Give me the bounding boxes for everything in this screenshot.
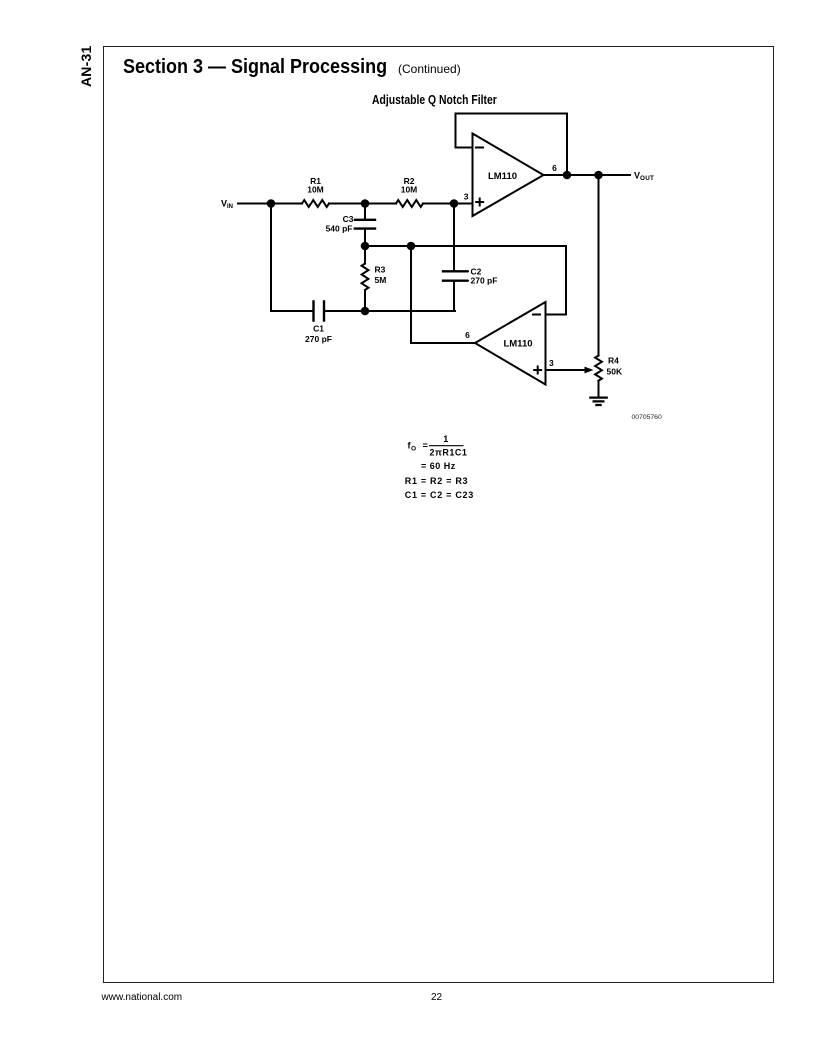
- wire R1 to node B: [329, 203, 396, 205]
- label VIN: [221, 199, 233, 211]
- svg-text:50K: 50K: [607, 367, 623, 377]
- formula R1=R2=R3: [405, 476, 468, 486]
- svg-text:540 pF: 540 pF: [326, 223, 353, 233]
- U1 minus input symbol: [475, 147, 484, 149]
- wire U2 noninverting input to R4 wiper: [546, 369, 588, 371]
- wire U1 output: [544, 174, 631, 176]
- pin 3 U2: [549, 358, 554, 368]
- formula block: [405, 434, 474, 500]
- svg-text:LM110: LM110: [488, 171, 517, 182]
- svg-text:R3: R3: [375, 265, 386, 275]
- wire node A vertical: [270, 204, 272, 312]
- formula 60 Hz: [421, 461, 456, 471]
- label C2 value with leaders: [466, 266, 497, 285]
- svg-text:10M: 10M: [401, 185, 418, 195]
- wire VOUT junction down to R4: [598, 175, 600, 356]
- U2 minus input symbol: [532, 314, 541, 316]
- svg-text:fO =: fO =: [408, 441, 429, 453]
- wire node X to R3: [364, 246, 366, 264]
- junction node D bottom rail: [361, 307, 370, 316]
- pin 6 U2: [465, 330, 470, 340]
- svg-text:3: 3: [549, 358, 554, 368]
- label R1 value: [307, 176, 324, 195]
- U1 plus input symbol: [475, 198, 484, 207]
- figure title: [372, 92, 497, 107]
- svg-text:LM110: LM110: [503, 339, 532, 350]
- pin 3 U1: [464, 192, 469, 202]
- svg-text:C3: C3: [343, 214, 354, 224]
- resistor R3: [362, 264, 369, 290]
- wire node 3 down to C2: [453, 204, 455, 272]
- svg-text:1: 1: [443, 434, 449, 444]
- node VIN input lead wire: [238, 203, 271, 205]
- junction node 3: [450, 199, 459, 208]
- svg-text:R1 = R2 = R3: R1 = R2 = R3: [405, 476, 468, 486]
- page border box: [103, 46, 774, 983]
- label U1 LM110: [488, 171, 517, 182]
- capacitor C3: [355, 220, 375, 229]
- wire node X horizontal to lower feedback: [365, 245, 566, 247]
- wire node B down to C3: [364, 204, 366, 220]
- wire R2 to node 3 and op-amp input: [423, 203, 473, 205]
- svg-text:VOUT: VOUT: [634, 171, 654, 183]
- svg-text:2πR1C1: 2πR1C1: [430, 448, 468, 458]
- svg-text:VIN: VIN: [221, 199, 233, 211]
- vertical AN-31 label: [78, 46, 94, 87]
- wire lower op-amp inverting feedback: [546, 246, 567, 315]
- junction U1 output feedback: [563, 171, 572, 180]
- junction node X: [361, 242, 370, 251]
- svg-text:270 pF: 270 pF: [471, 276, 498, 286]
- figure number 00705760: [632, 414, 662, 421]
- wire R4 to ground: [598, 381, 600, 397]
- wire C3 to node X: [364, 229, 366, 246]
- wire C1 to node D and C2 bottom: [325, 310, 456, 312]
- junction node A: [267, 199, 276, 208]
- svg-text:5M: 5M: [375, 275, 387, 285]
- svg-text:R4: R4: [608, 356, 619, 366]
- label U2 LM110: [503, 339, 532, 350]
- potentiometer R4: [595, 356, 602, 381]
- resistor R1: [302, 200, 329, 207]
- label C3 value with leaders: [326, 214, 358, 234]
- svg-text:6: 6: [465, 330, 470, 340]
- label VOUT: [634, 171, 654, 183]
- svg-text:00705760: 00705760: [632, 414, 662, 421]
- svg-text:6: 6: [552, 163, 557, 173]
- svg-text:C1 = C2 = C23: C1 = C2 = C23: [405, 490, 474, 500]
- footer: [102, 992, 183, 1003]
- svg-text:10M: 10M: [307, 185, 324, 195]
- U2 plus input symbol: [533, 366, 542, 375]
- section heading: [123, 56, 387, 79]
- label R2 value: [401, 176, 418, 195]
- wire C2 bottom lead: [453, 281, 455, 311]
- pin 6 U1: [552, 163, 557, 173]
- ground symbol: [590, 398, 606, 405]
- wire R3 to node D: [364, 290, 366, 311]
- resistor R2: [396, 200, 423, 207]
- svg-text:C1: C1: [313, 324, 324, 334]
- formula C1=C2=C23: [405, 490, 474, 500]
- label R4 value: [607, 356, 623, 377]
- junction node B: [361, 199, 370, 208]
- capacitor C1: [314, 302, 325, 321]
- svg-text:= 60 Hz: = 60 Hz: [421, 461, 456, 471]
- junction U2 output on node X rail: [407, 242, 416, 251]
- formula fO: [408, 434, 468, 458]
- wire bottom rail left: [271, 310, 313, 312]
- capacitor C2: [443, 271, 467, 280]
- svg-text:3: 3: [464, 192, 469, 202]
- wire U1 feedback loop: [456, 114, 568, 176]
- svg-text:270 pF: 270 pF: [305, 334, 332, 344]
- label R3 value: [375, 265, 387, 286]
- R4 wiper arrowhead: [585, 367, 594, 374]
- op-amp U2 triangle: [475, 302, 546, 385]
- wire node A to R1: [271, 203, 302, 205]
- label C1 value: [305, 324, 332, 345]
- wire U2 output to node at 411,246: [411, 246, 475, 343]
- junction VOUT to R4: [594, 171, 603, 180]
- op-amp U1 triangle: [473, 134, 544, 217]
